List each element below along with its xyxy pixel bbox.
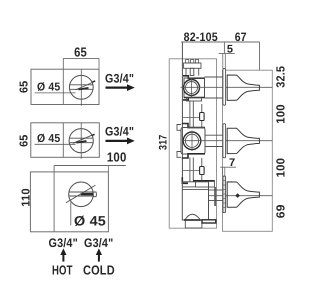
escutcheon plate U1 (31, 69, 99, 104)
stem housing V1 (205, 76, 223, 78)
internal line V3 upper (182, 186, 195, 188)
bracket line V2-V3 (182, 170, 201, 172)
svg-text:COLD: COLD (83, 263, 115, 278)
lever grip dark U1 (79, 88, 89, 90)
handle cone 2 (227, 128, 259, 153)
svg-text:67: 67 (235, 30, 247, 44)
vertical centerline U2 (80, 123, 82, 159)
diverter diamond mark (235, 193, 240, 198)
wall side fitting V3 (214, 187, 216, 206)
svg-text:32.5: 32.5 (273, 66, 287, 88)
svg-text:100: 100 (273, 158, 287, 178)
lever tip tick U1 (92, 81, 95, 82)
pipe V1-V2 (189, 101, 191, 128)
svg-text:82-105: 82-105 (184, 30, 218, 44)
inlet arrow hot (up) (60, 248, 66, 261)
cap plate V1 (184, 63, 201, 68)
plaster line (front face vertical) (181, 42, 183, 182)
svg-text:Ø 45: Ø 45 (74, 214, 106, 229)
lever grip dark U2 (77, 141, 87, 143)
lever tip tick U2 (92, 134, 95, 135)
pipe V2-V3 (189, 158, 191, 182)
svg-text:65: 65 (19, 80, 31, 93)
svg-text:Ø 45: Ø 45 (37, 82, 61, 94)
lever slot upper chord U3 (69, 191, 94, 193)
svg-text:G3/4": G3/4" (49, 236, 78, 250)
axis line V3 (209, 195, 272, 197)
handle slot upper chord U2 (69, 137, 93, 139)
handle slot upper chord U1 (70, 84, 94, 86)
handle cone 3 (227, 182, 259, 207)
svg-text:G3/4": G3/4" (84, 236, 113, 250)
vertical centerline U1 (80, 69, 82, 106)
handle cone 1 (227, 75, 259, 100)
handle circle U3 (69, 182, 94, 207)
wall plate 3 (hatched) (223, 176, 226, 213)
body bottom dark V2 (182, 154, 205, 158)
bracket line V1-V2 (182, 117, 201, 119)
svg-text:317: 317 (157, 135, 169, 150)
dimension line 65 top (63, 57, 99, 59)
extension tick mid (plate face) (223, 42, 225, 53)
svg-text:Ø 45: Ø 45 (37, 133, 61, 145)
svg-text:G3/4": G3/4" (105, 124, 134, 138)
lever knob U3 (93, 192, 96, 197)
cap feet V1 (185, 68, 187, 75)
extension line right U1 (98, 58, 100, 69)
handle circle U2 (69, 129, 93, 153)
outlet stub V3 (dark) (202, 220, 216, 223)
outlet arrow U1 (106, 84, 135, 91)
svg-text:100: 100 (273, 104, 287, 124)
lever diagonal U1 (76, 81, 95, 90)
svg-text:HOT: HOT (52, 263, 73, 278)
cartridge outer circle V1 (184, 80, 200, 96)
svg-text:100: 100 (107, 150, 127, 165)
crosshair vertical V2 (191, 131, 193, 152)
leader line Ø45 U3 (70, 202, 72, 225)
leader line Ø45 U2 (35, 143, 76, 145)
trim plate U3 (30, 172, 108, 232)
escutcheon plate U2 (31, 123, 100, 158)
svg-text:110: 110 (21, 188, 33, 207)
svg-text:7: 7 (229, 157, 235, 169)
valve body V1 (184, 78, 205, 98)
svg-text:69: 69 (273, 204, 287, 218)
body top bracket V3 (dark) (182, 177, 188, 183)
wall plate 2 (223, 124, 226, 158)
svg-text:G3/4": G3/4" (105, 72, 134, 86)
body bottom dark V3 (184, 219, 201, 221)
internal line V3 (182, 189, 208, 191)
svg-text:5: 5 (227, 43, 233, 55)
cartridge inner circle V2 (185, 134, 198, 147)
square trim edge U1 (62, 58, 64, 104)
rough-in box (169, 59, 216, 228)
body top bracket V1 (dark) (183, 76, 205, 78)
wall-side reference rectangle (right) (223, 70, 273, 231)
lever slot lower chord U3 (69, 195, 94, 197)
square trim edge U3 (53, 166, 55, 232)
mounting screws V1 (186, 60, 189, 63)
lever diagonal U3 (66, 185, 95, 202)
square trim edge U2 (62, 123, 64, 158)
side pipe with union nut 1 (201, 104, 203, 128)
drop elbow foot V3 (185, 220, 202, 228)
flange tab top V2 (177, 125, 181, 131)
foot V1 (187, 98, 202, 101)
dimension line 5 (plate thickness) (219, 52, 235, 54)
stem housing V2 (205, 134, 223, 136)
outlet collar V3 (dark top) (196, 181, 215, 187)
axis line V2 (182, 140, 272, 142)
dome arc V3 (185, 214, 201, 220)
dimension 7 (plate stand-off) (220, 166, 236, 168)
handle slot lower chord U1 (70, 88, 94, 90)
svg-text:65: 65 (19, 134, 31, 147)
body bottom bracket V1 (dark) (183, 98, 188, 100)
extension pair plate thickness (222, 53, 224, 68)
cartridge outer circle V2 (183, 132, 201, 150)
stem housing V3 (209, 189, 223, 191)
valve body V2 (181, 128, 205, 155)
side pipe with union nut 2 (201, 158, 203, 181)
flange tab bottom V2 (177, 152, 181, 158)
body top bracket V2 (dark) (182, 124, 205, 128)
valve body V3 (182, 182, 208, 220)
wall plate 1 (223, 69, 226, 106)
extension line right U3 (107, 166, 109, 172)
leader line Ø45 U1 (35, 92, 76, 94)
top dimension line 82-105 / 67 (181, 41, 260, 43)
body bottom dark V1 (184, 97, 205, 99)
lever diagonal U2 (73, 134, 95, 143)
dimension line 100 top (54, 165, 126, 167)
svg-text:65: 65 (74, 44, 87, 59)
crosshair vertical V1 (191, 78, 193, 99)
lever grip dark U3 (81, 193, 94, 195)
axis line V1 (to dim line) (181, 86, 273, 88)
cartridge inner circle V1 (186, 82, 198, 94)
extension line handle tip (259, 42, 261, 70)
handle circle U1 (69, 75, 93, 99)
handle slot lower chord U2 (70, 142, 94, 144)
outlet arrow U2 (106, 138, 135, 145)
inlet arrow cold (up) (96, 248, 102, 261)
